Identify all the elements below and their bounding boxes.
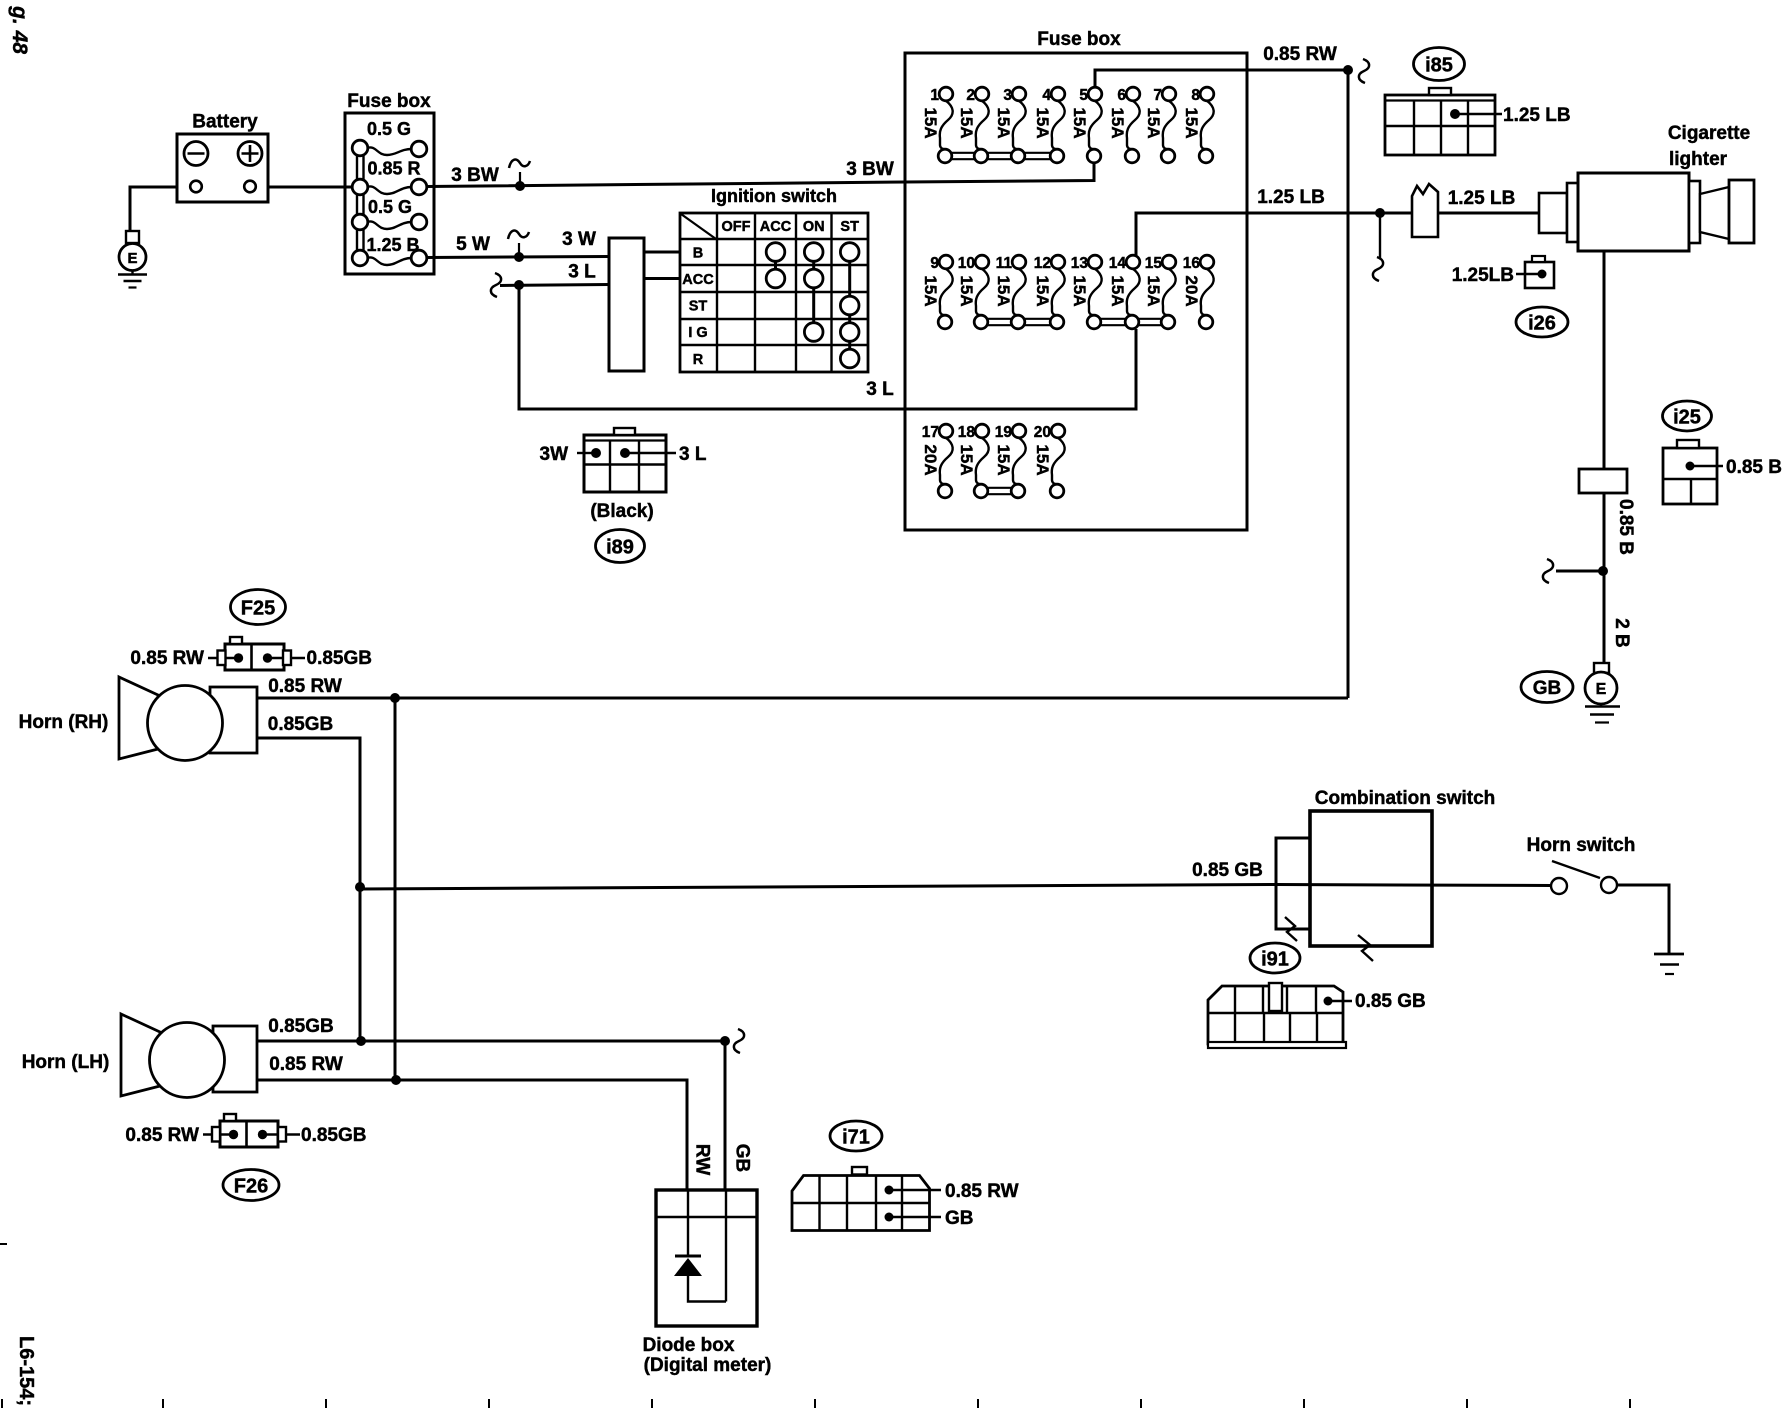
- svg-text:i85: i85: [1425, 55, 1453, 77]
- wire switch pin ACC: [644, 277, 680, 280]
- connector GB tag: [1521, 672, 1573, 703]
- fuse bus row1 (1-4): [946, 152, 1058, 154]
- svg-text:Combination switch: Combination switch: [1315, 788, 1496, 809]
- svg-text:ON: ON: [803, 219, 825, 235]
- pin 1.25LB (i85): [1450, 109, 1502, 119]
- horn LH H2: [121, 1014, 257, 1098]
- svg-text:1.25 B: 1.25 B: [366, 235, 419, 255]
- fuse 18 (15A): [957, 424, 989, 498]
- svg-text:20A: 20A: [1182, 275, 1201, 306]
- stub left (F25): [218, 651, 226, 666]
- svg-text:I G: I G: [688, 325, 707, 341]
- svg-text:13: 13: [1071, 255, 1089, 272]
- svg-text:0.85GB: 0.85GB: [301, 1125, 366, 1146]
- svg-text:19: 19: [995, 424, 1013, 441]
- svg-text:15A: 15A: [994, 444, 1013, 475]
- branch break 1.25LB: [1373, 215, 1383, 281]
- wire 0.85RW vertical: [1347, 70, 1350, 698]
- fuse 3 (15A): [994, 87, 1026, 163]
- fuse 20 (15A): [1033, 424, 1065, 498]
- svg-text:15A: 15A: [1070, 275, 1089, 306]
- svg-text:16: 16: [1183, 255, 1201, 272]
- node 0.85RW junction: [1343, 65, 1353, 75]
- svg-text:15A: 15A: [1144, 275, 1163, 306]
- connector i91 tag: [1250, 943, 1300, 973]
- svg-text:20: 20: [1034, 424, 1051, 441]
- svg-text:3 BW: 3 BW: [846, 159, 894, 180]
- svg-text:0.85 RW: 0.85 RW: [945, 1181, 1019, 1202]
- svg-text:9: 9: [930, 255, 939, 272]
- break GB branch: [1543, 559, 1553, 583]
- svg-text:GB: GB: [732, 1144, 753, 1173]
- fuse 8 (15A): [1182, 87, 1214, 163]
- diode box body: [656, 1190, 757, 1326]
- node 1.25LB junction: [1375, 208, 1385, 218]
- diode D1: [674, 1256, 702, 1276]
- svg-text:(Digital meter): (Digital meter): [644, 1355, 772, 1376]
- wire switch pin B: [644, 251, 680, 254]
- svg-text:3 L: 3 L: [679, 444, 707, 465]
- fuse 4 (15A): [1033, 87, 1065, 163]
- svg-text:0.85 B: 0.85 B: [1726, 457, 1782, 478]
- branch break 3BW: [509, 160, 530, 184]
- svg-text:B: B: [693, 246, 703, 262]
- svg-text:E: E: [127, 250, 137, 267]
- connector i85 body: [1385, 88, 1495, 155]
- svg-text:5: 5: [1079, 87, 1088, 104]
- wire battery to ground: [130, 187, 177, 231]
- stub left (F26): [212, 1127, 220, 1142]
- fuse box FB body: [905, 53, 1247, 530]
- svg-text:6: 6: [1117, 87, 1126, 104]
- fusible link FL1: [1412, 184, 1438, 237]
- pin GB (F25): [263, 653, 305, 662]
- wire horn RH RW: [257, 697, 1348, 700]
- svg-text:0.85 GB: 0.85 GB: [1355, 991, 1426, 1012]
- svg-text:F26: F26: [234, 1176, 268, 1198]
- svg-text:15A: 15A: [921, 107, 940, 138]
- fuse 6 (15A): [1108, 87, 1140, 163]
- fuse bus row2 (10-12): [982, 318, 1058, 320]
- connector F26 tag: [223, 1170, 279, 1201]
- node horn RH RW junction: [390, 693, 400, 703]
- fuse 9 (15A): [921, 255, 953, 329]
- fuse 1.25 B (F-d): [352, 235, 427, 266]
- svg-text:GB: GB: [1533, 678, 1562, 699]
- svg-text:0.85 RW: 0.85 RW: [269, 1054, 343, 1075]
- edge tick (left): [0, 1243, 7, 1245]
- svg-text:ST: ST: [840, 219, 859, 235]
- svg-text:3 W: 3 W: [562, 229, 596, 250]
- branch to GB: [1556, 570, 1603, 573]
- table headers: [722, 219, 860, 235]
- svg-text:L6-154;: L6-154;: [15, 1336, 37, 1406]
- svg-text:ST: ST: [689, 299, 708, 315]
- connector i91 body: [1208, 983, 1346, 1048]
- ground (horn switch): [1654, 954, 1684, 974]
- svg-text:2 B: 2 B: [1611, 618, 1632, 648]
- connector i71 body: [792, 1167, 930, 1231]
- fuse 2 (15A): [957, 87, 989, 163]
- node GB junction (0.85GB run): [355, 882, 365, 892]
- node GB diode junction: [720, 1036, 730, 1046]
- svg-text:15A: 15A: [1070, 107, 1089, 138]
- pin 0.85B (i25): [1686, 462, 1724, 471]
- svg-text:15A: 15A: [1033, 107, 1052, 138]
- branch break 5W: [508, 231, 529, 255]
- break 3L source: [491, 273, 501, 297]
- fuse 0.85 R (F-b): [352, 159, 427, 195]
- svg-text:1: 1: [930, 87, 939, 104]
- svg-text:3 L: 3 L: [568, 262, 596, 283]
- battery B1: [177, 134, 268, 202]
- svg-text:15A: 15A: [1144, 107, 1163, 138]
- horn switch SW2: [1551, 861, 1617, 894]
- wire 0.85B: [1603, 493, 1606, 663]
- svg-text:15A: 15A: [1108, 107, 1127, 138]
- svg-text:0.85 GB: 0.85 GB: [1192, 860, 1263, 881]
- wire GB through switch: [1276, 885, 1551, 886]
- wire diode to GB: [688, 1276, 726, 1302]
- svg-text:Diode box: Diode box: [643, 1335, 735, 1356]
- wire fuse14 output 1.25LB: [1136, 213, 1412, 255]
- svg-text:i71: i71: [842, 1127, 870, 1149]
- connector F25 body: [225, 637, 284, 670]
- svg-text:15A: 15A: [1108, 275, 1127, 306]
- svg-text:3W: 3W: [540, 444, 569, 465]
- svg-text:Battery: Battery: [192, 112, 258, 133]
- connector i89 tag: [596, 530, 645, 563]
- svg-text:0.5 G: 0.5 G: [368, 197, 412, 217]
- svg-text:g. 48: g. 48: [8, 5, 31, 54]
- wire 5W-3W: [427, 257, 609, 258]
- svg-text:GB: GB: [945, 1208, 974, 1229]
- svg-text:ACC: ACC: [682, 272, 714, 288]
- break 0.85RW: [1359, 59, 1369, 83]
- stub right (F26): [278, 1127, 286, 1142]
- svg-text:15A: 15A: [994, 107, 1013, 138]
- stub right (F25): [283, 651, 291, 666]
- svg-text:Horn (LH): Horn (LH): [22, 1052, 110, 1073]
- svg-text:15: 15: [1145, 255, 1163, 272]
- break GB continuation: [734, 1029, 744, 1053]
- svg-text:8: 8: [1191, 87, 1200, 104]
- cigarette lighter CL1: [1539, 173, 1754, 251]
- svg-text:(Black): (Black): [590, 501, 653, 522]
- svg-text:lighter: lighter: [1669, 149, 1728, 170]
- svg-text:0.85GB: 0.85GB: [268, 1016, 333, 1037]
- svg-text:RW: RW: [692, 1144, 713, 1175]
- pin GB (i71): [885, 1213, 942, 1222]
- wire GB inside diode box: [725, 1190, 727, 1302]
- fuse 7 (15A): [1144, 87, 1176, 163]
- connector F25 tag: [231, 590, 286, 625]
- svg-text:Cigarette: Cigarette: [1668, 123, 1750, 144]
- pin 0.85GB (i91): [1324, 997, 1353, 1006]
- wire link to lighter: [1438, 212, 1539, 215]
- diode box label: [643, 1335, 772, 1376]
- wire horn LH RW: [257, 1080, 687, 1190]
- ignition switch SW1 body: [609, 238, 644, 371]
- combination switch CS1 body: [1310, 811, 1432, 946]
- svg-text:20A: 20A: [921, 444, 940, 475]
- svg-text:0.85 RW: 0.85 RW: [130, 648, 204, 669]
- wire 3L feed: [519, 285, 1136, 409]
- wire 3BW: [427, 162, 1094, 187]
- svg-text:0.85GB: 0.85GB: [268, 714, 333, 735]
- wire lighter down: [1603, 251, 1606, 469]
- svg-text:Ignition switch: Ignition switch: [711, 186, 837, 206]
- svg-text:15A: 15A: [957, 444, 976, 475]
- fuse 13 (15A): [1070, 255, 1102, 329]
- fuse 15 (15A): [1144, 255, 1176, 329]
- pin 3L (i89): [620, 448, 676, 458]
- svg-text:R: R: [693, 352, 704, 368]
- svg-text:15A: 15A: [957, 275, 976, 306]
- svg-text:10: 10: [958, 255, 975, 272]
- svg-text:ACC: ACC: [760, 219, 792, 235]
- wire GB to diode box: [724, 1041, 727, 1190]
- connector i26 body: [1525, 256, 1554, 288]
- fuse 0.5 G (F-a): [352, 119, 427, 157]
- connector i25 tag: [1663, 401, 1712, 431]
- wire RW inside diode box: [687, 1190, 689, 1256]
- break (connector box): [1285, 917, 1297, 941]
- pin 1.25LB (i26): [1516, 270, 1547, 279]
- fuse 17 (20A): [921, 424, 953, 498]
- svg-text:0.85GB: 0.85GB: [307, 648, 372, 669]
- svg-text:5 W: 5 W: [456, 234, 490, 255]
- fuse 14 (15A): [1108, 255, 1140, 329]
- svg-text:3 BW: 3 BW: [451, 165, 499, 186]
- svg-text:1.25LB: 1.25LB: [1452, 265, 1514, 286]
- svg-text:3: 3: [1003, 87, 1012, 104]
- connector F26 body: [220, 1114, 278, 1147]
- fuse 10 (15A): [957, 255, 989, 329]
- fuse 11 (15A): [994, 255, 1026, 329]
- contacts ST position: [840, 243, 859, 368]
- node 0.85B junction: [1598, 566, 1608, 576]
- svg-text:18: 18: [958, 424, 976, 441]
- svg-text:15A: 15A: [1182, 107, 1201, 138]
- wire horn switch to ground: [1617, 885, 1669, 954]
- svg-text:i26: i26: [1528, 313, 1556, 335]
- svg-text:14: 14: [1109, 255, 1127, 272]
- svg-text:7: 7: [1153, 87, 1162, 104]
- svg-text:15A: 15A: [1033, 444, 1052, 475]
- wire 3L to switch: [500, 285, 609, 286]
- connector i71 tag: [830, 1121, 882, 1151]
- svg-text:1.25 LB: 1.25 LB: [1257, 187, 1325, 208]
- svg-text:15A: 15A: [1033, 275, 1052, 306]
- node horn LH RW junction: [391, 1075, 401, 1085]
- svg-text:i91: i91: [1261, 949, 1289, 971]
- wire horn LH GB: [257, 1040, 725, 1043]
- svg-text:15A: 15A: [921, 275, 940, 306]
- wire fuse5 output 0.85RW: [1095, 70, 1348, 87]
- svg-text:17: 17: [922, 424, 939, 441]
- wire RW vertical: [394, 698, 397, 1080]
- pin RW (F26): [203, 1130, 238, 1139]
- fuse box F (small) body: [345, 113, 434, 274]
- fuse 5 (15A): [1070, 87, 1102, 163]
- ignition switch table: [680, 213, 868, 372]
- svg-text:i25: i25: [1673, 407, 1701, 429]
- svg-text:0.85 RW: 0.85 RW: [268, 676, 342, 697]
- node horn LH GB junction: [356, 1036, 366, 1046]
- svg-text:Fuse box: Fuse box: [1037, 29, 1121, 50]
- svg-text:2: 2: [966, 87, 975, 104]
- svg-text:1.25 LB: 1.25 LB: [1503, 105, 1571, 126]
- fuse 1 (15A): [921, 87, 953, 163]
- svg-text:Horn switch: Horn switch: [1527, 835, 1636, 856]
- wire horn RH GB: [257, 738, 360, 1041]
- svg-text:12: 12: [1034, 255, 1051, 272]
- fuse 16 (20A): [1182, 255, 1214, 329]
- fuse bus row2 (13-15): [1095, 318, 1169, 320]
- combination switch connector box: [1276, 838, 1310, 929]
- fuse 12 (15A): [1033, 255, 1065, 329]
- svg-text:1.25 LB: 1.25 LB: [1448, 188, 1516, 209]
- bus (small fuse box): [356, 148, 358, 258]
- connector i25 body: [1663, 440, 1717, 504]
- fuse bus row3 (18-19): [982, 487, 1019, 489]
- break (switch body): [1358, 935, 1373, 961]
- svg-text:11: 11: [996, 255, 1013, 272]
- wire 0.85 GB run: [360, 885, 1276, 890]
- table row labels: [682, 246, 714, 369]
- svg-text:Fuse box: Fuse box: [347, 91, 431, 112]
- pin GB (F26): [258, 1130, 300, 1139]
- svg-text:0.5 G: 0.5 G: [367, 119, 411, 139]
- node 3BW junction: [515, 181, 525, 191]
- ground E (lighter): [1585, 663, 1620, 723]
- svg-text:0.85 B: 0.85 B: [1615, 499, 1636, 555]
- svg-text:E: E: [1596, 681, 1607, 698]
- connector i89 body: [584, 428, 666, 492]
- fuse 19 (15A): [994, 424, 1026, 498]
- svg-text:OFF: OFF: [722, 219, 751, 235]
- svg-text:F25: F25: [241, 598, 275, 620]
- connector i26 tag: [1516, 307, 1568, 337]
- svg-text:15A: 15A: [994, 275, 1013, 306]
- wire battery to fuse box: [268, 186, 353, 189]
- node 5W junction: [514, 252, 524, 262]
- inline connector (lighter): [1579, 469, 1627, 493]
- ground E (battery): [118, 231, 147, 288]
- svg-text:0.85 R: 0.85 R: [367, 159, 420, 179]
- svg-text:0.85 RW: 0.85 RW: [125, 1125, 199, 1146]
- svg-text:Horn (RH): Horn (RH): [19, 712, 109, 733]
- connector i85 tag: [1414, 48, 1465, 81]
- svg-text:4: 4: [1042, 87, 1051, 104]
- pin 0.85RW (i71): [885, 1186, 942, 1195]
- horn RH H1: [119, 677, 257, 761]
- registration ticks: [1, 1399, 3, 1408]
- contacts ACC position: [766, 243, 785, 288]
- cigarette lighter label: [1668, 123, 1750, 170]
- node 3L junction: [514, 280, 524, 290]
- fuse 0.5 G (F-c): [352, 197, 427, 230]
- svg-text:3 L: 3 L: [866, 379, 894, 400]
- svg-text:0.85 RW: 0.85 RW: [1263, 44, 1337, 65]
- svg-text:15A: 15A: [957, 107, 976, 138]
- svg-text:i89: i89: [606, 537, 634, 559]
- pin 3W (i89): [577, 448, 601, 458]
- pin RW (F25): [208, 653, 243, 662]
- contacts ON position: [804, 243, 823, 342]
